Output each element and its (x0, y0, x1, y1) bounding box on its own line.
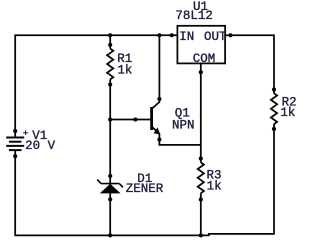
diode D1 zener (97, 174, 123, 202)
junction bottom rail / R3 (199, 233, 203, 237)
wire top rail to Q1 collector (158, 35, 160, 99)
wire U1 COM to R3 top (200, 72, 202, 158)
svg-text:+: + (23, 128, 29, 139)
resistor R2 (271, 87, 277, 131)
label V1 plus sign (23, 128, 29, 139)
svg-text:OUT: OUT (204, 30, 227, 44)
battery V1 (6, 129, 24, 158)
wire Q1 base tap (110, 119, 151, 121)
svg-text:1k: 1k (207, 179, 222, 193)
label R2 refdes (282, 95, 297, 109)
svg-text:78L12: 78L12 (175, 9, 213, 23)
label U1 pin COM (193, 52, 216, 66)
label U1 pin OUT (204, 30, 227, 44)
svg-text:1k: 1k (280, 106, 295, 120)
svg-text:1k: 1k (117, 63, 132, 77)
label Q1 refdes (175, 106, 190, 120)
svg-text:ZENER: ZENER (126, 182, 164, 196)
label Q1 value NPN (172, 118, 195, 132)
wire battery + up and right along top rail to U1 IN (15, 35, 177, 131)
wire battery - down, bottom rail, and up to R2 bottom (15, 129, 274, 235)
resistor R1 (107, 43, 113, 87)
label R1 value 1k (117, 63, 132, 77)
wire R3 bottom to bottom rail (200, 200, 202, 236)
wire R1 bottom to D1 cathode (109, 85, 111, 177)
label V1 refdes (32, 129, 47, 143)
junction R1-D1 column / Q1 base (108, 117, 112, 121)
label U1 value 78L12 (175, 9, 213, 23)
svg-text:NPN: NPN (172, 118, 195, 132)
wire D1 anode to bottom rail (109, 199, 111, 235)
label U1 pin IN (179, 30, 194, 44)
wire R1 top to rail (109, 35, 111, 45)
label R2 value 1k (280, 106, 295, 120)
resistor R3 (198, 156, 204, 201)
junction top rail / Q1 collector (157, 33, 161, 37)
svg-text:IN: IN (179, 30, 194, 44)
label V1 value 20 V (25, 139, 56, 153)
op-amp U1 78L12 regulator box (170, 26, 233, 74)
label R1 refdes (117, 52, 132, 66)
junction bottom rail / D1 anode (108, 233, 112, 237)
junction top rail / R1 (108, 33, 112, 37)
wire U1 OUT to R2 top (231, 35, 275, 89)
svg-text:COM: COM (193, 52, 216, 66)
label U1 refdes (193, 0, 208, 14)
label R3 value 1k (207, 179, 222, 193)
svg-text:20 V: 20 V (25, 139, 56, 153)
label D1 value ZENER (126, 182, 164, 196)
label R3 refdes (207, 168, 222, 182)
transistor Q1 NPN (133, 97, 161, 142)
wire Q1 emitter to R3 column (159, 140, 200, 145)
label D1 refdes (137, 172, 152, 186)
